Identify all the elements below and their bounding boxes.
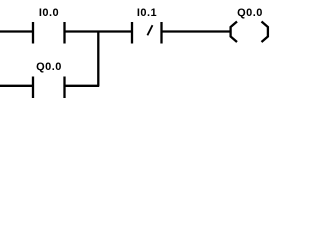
wire W2: contact I0.0 to contact I0.1 — [66, 30, 132, 32]
contact Q0.0 (normally open, parallel branch) — [33, 77, 65, 99]
wire W6: contact Q0.0 to branch vertical — [66, 85, 100, 87]
coil Q0.0 output — [231, 22, 268, 43]
svg-text:I0.1: I0.1 — [137, 7, 157, 19]
wire W3: branch vertical (junction at x=98 down to parallel branch) — [97, 32, 99, 87]
svg-text:Q0.0: Q0.0 — [36, 61, 62, 73]
svg-text:Q0.0: Q0.0 — [237, 7, 263, 19]
contact I0.0 (normally open) — [33, 22, 65, 44]
contact I0.1 (normally closed) — [132, 22, 162, 44]
wire W4: contact I0.1 to coil Q0.0 — [163, 30, 230, 32]
svg-text:I0.0: I0.0 — [39, 7, 59, 19]
wire W5: branch left rail stub to contact Q0.0 — [0, 85, 32, 87]
wire W1: left rail stub to contact I0.0 — [0, 30, 32, 32]
